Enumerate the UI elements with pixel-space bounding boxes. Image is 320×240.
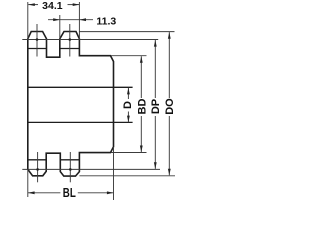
34.1 left (28, 3, 35, 6)
11.3 right (outside, pointing left) (79, 18, 86, 21)
ext line BD top (111, 55, 147, 57)
ext line BL right (113, 147, 115, 200)
BD down (140, 146, 143, 153)
dim line DP (154, 40, 156, 98)
34.1 right (73, 3, 80, 6)
BL right (107, 191, 114, 194)
svg-text:11.3: 11.3 (96, 15, 116, 27)
svg-text:34.1: 34.1 (42, 0, 63, 12)
ext line 11.3 left (59, 15, 61, 40)
centerline tooth 2 top (69, 24, 71, 57)
thin lines: centerlines and extension lines (22, 2, 175, 200)
ext line BL left (27, 170, 29, 197)
centerline tooth 1 top (36, 24, 38, 57)
dim line D (127, 88, 129, 99)
dim line 34.1 (28, 4, 38, 6)
11.3 left (outside, pointing right) (53, 18, 60, 21)
svg-text:D: D (122, 101, 134, 109)
arrowheads (28, 3, 171, 194)
dim line 11.3 (48, 19, 93, 21)
dim line BL (28, 192, 60, 194)
bore line lower (28, 121, 133, 123)
pitch dots (36, 38, 72, 171)
D up (127, 88, 130, 95)
DP up (154, 40, 157, 47)
dim line BD (140, 56, 142, 98)
pitch line bottom (22, 168, 160, 170)
pitch line top (22, 39, 158, 41)
centerline tooth 2 bottom (69, 152, 71, 182)
svg-text:BL: BL (63, 187, 76, 200)
bore line upper (28, 86, 133, 88)
svg-text:DP: DP (150, 99, 162, 114)
pitch dot tooth 1 top (36, 38, 39, 41)
ext line DO top (79, 31, 174, 33)
ext line DO bottom (79, 175, 175, 177)
ext line 34.1/11.3 right (78, 2, 80, 39)
tooth base line bottom right (60, 159, 79, 161)
BD up (140, 56, 143, 63)
tooth base line bottom (28, 159, 46, 161)
ext line BD bottom (111, 152, 147, 154)
DO up (168, 32, 171, 39)
svg-text:BD: BD (136, 99, 148, 115)
pitch dot tooth 2 bottom (69, 168, 72, 171)
BL left (28, 191, 35, 194)
DP down (154, 162, 157, 169)
sprocket body outline (28, 32, 114, 177)
dim line DO (168, 32, 170, 98)
tooth base line top (28, 49, 133, 160)
ext line 34.1 left / body left (27, 2, 29, 39)
svg-text:DO: DO (164, 98, 176, 115)
tooth base line top right (60, 48, 80, 50)
pitch dot tooth 1 bottom (36, 168, 39, 171)
D down (127, 116, 130, 123)
DO down (168, 169, 171, 176)
pitch dot tooth 2 top (69, 38, 72, 41)
centerline tooth 1 bottom (37, 152, 39, 182)
dimension texts (42, 0, 176, 200)
